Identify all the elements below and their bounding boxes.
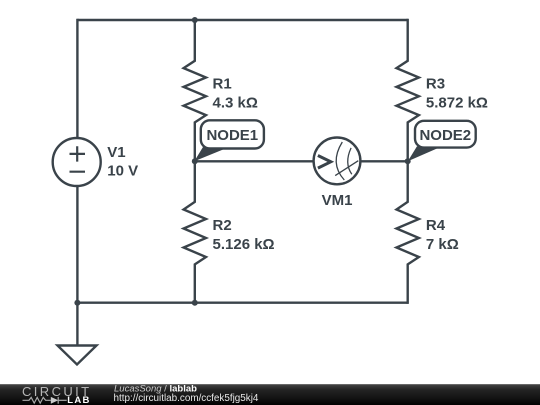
junction bottom left: [74, 300, 80, 306]
svg-text:V1: V1: [107, 144, 125, 161]
svg-text:http://circuitlab.com/ccfek5fj: http://circuitlab.com/ccfek5fjg5kj4: [114, 393, 259, 404]
svg-text:R4: R4: [426, 217, 446, 234]
ground: [58, 346, 97, 365]
svg-text:4.3 kΩ: 4.3 kΩ: [213, 94, 258, 111]
resistor R1: [184, 20, 206, 161]
CircuitLab logo resistor-diode squiggle: [23, 397, 67, 404]
voltmeter VM1: [314, 138, 361, 185]
wire NODE1 to NODE2 through voltmeter: [195, 160, 408, 162]
svg-text:R2: R2: [213, 217, 232, 234]
footer text: [114, 383, 259, 404]
CircuitLab logo wordmark: [22, 384, 92, 405]
wire left branch (V1 branch): [76, 19, 78, 303]
label V1 value: [107, 144, 138, 180]
resistor R4: [397, 161, 419, 304]
svg-text:R1: R1: [213, 75, 232, 92]
footer bar: [0, 384, 540, 405]
label R2 value: [213, 217, 275, 253]
svg-text:LAB: LAB: [67, 395, 90, 405]
junction bottom middle: [192, 300, 198, 306]
wire top rail: [77, 19, 407, 21]
wire bottom rail: [77, 302, 407, 304]
svg-text:10 V: 10 V: [107, 163, 138, 180]
junction node B (NODE2): [405, 158, 411, 164]
svg-text:5.872 kΩ: 5.872 kΩ: [426, 94, 488, 111]
wire ground stub: [76, 303, 78, 346]
node NODE2 flag: [408, 121, 476, 162]
node NODE1 flag: [194, 120, 264, 161]
voltage source V1: [53, 138, 101, 186]
resistor R3: [397, 19, 419, 162]
svg-text:5.126 kΩ: 5.126 kΩ: [213, 236, 275, 253]
svg-text:NODE2: NODE2: [419, 127, 471, 144]
svg-text:NODE1: NODE1: [206, 127, 258, 144]
label R4 value: [426, 217, 459, 253]
junction top middle: [192, 17, 198, 23]
svg-text:R3: R3: [426, 75, 445, 92]
svg-text:7 kΩ: 7 kΩ: [426, 236, 459, 253]
svg-text:VM1: VM1: [322, 192, 353, 209]
junction node A (NODE1): [192, 158, 198, 164]
resistor R2: [184, 161, 206, 302]
label R3 value: [426, 75, 488, 111]
label R1 value: [213, 75, 258, 111]
